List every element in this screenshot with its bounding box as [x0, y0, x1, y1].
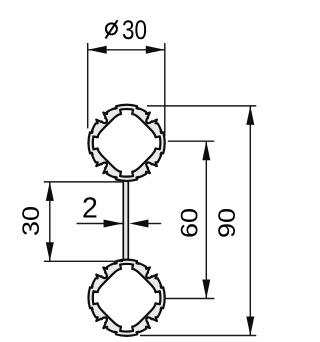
svg-text:30: 30 — [18, 206, 45, 236]
svg-text:2: 2 — [82, 193, 98, 225]
svg-text:30: 30 — [122, 15, 147, 45]
svg-text:60: 60 — [176, 208, 203, 238]
svg-text:90: 90 — [214, 208, 241, 238]
